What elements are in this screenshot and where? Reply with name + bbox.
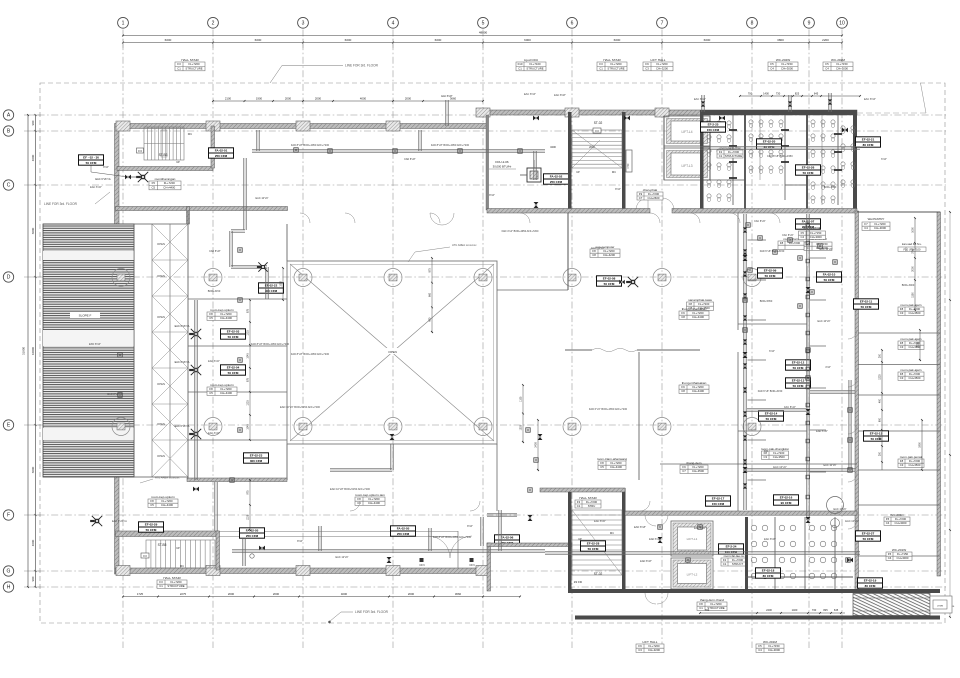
lift block L2 [671, 558, 713, 589]
svg-text:C4: C4 [888, 556, 892, 560]
cfm box FA-02-10 [817, 272, 842, 282]
svg-text:C1: C1 [577, 504, 581, 508]
toilet partition 1 [732, 115, 734, 205]
svg-text:825: 825 [795, 92, 800, 96]
svg-text:C3: C3 [900, 311, 904, 315]
right wing partition y431 [858, 430, 940, 432]
svg-text:2400: 2400 [535, 442, 538, 448]
grid bubble 4 [388, 17, 399, 28]
svg-text:C1: C1 [719, 154, 723, 158]
column grid 6 top wall upper [565, 108, 579, 117]
svg-text:LINE FOR 3rd. FLOOR: LINE FOR 3rd. FLOOR [355, 610, 389, 614]
svg-text:6000: 6000 [614, 38, 621, 42]
svg-text:EAC 10"x6": EAC 10"x6" [819, 248, 832, 251]
duct right horizontal y410 [747, 408, 806, 410]
duct stub above wall 1 [445, 100, 447, 126]
right wing partition y395 [858, 394, 940, 396]
svg-text:F3: F3 [177, 62, 181, 66]
grid line 10 [841, 30, 843, 649]
grid bubble 6 [567, 17, 578, 28]
escalator light band 1 [43, 251, 134, 260]
svg-text:Wat PANTRY: Wat PANTRY [868, 217, 885, 221]
svg-text:FAD 6"x6" BOD+4650 AFF+7200: FAD 6"x6" BOD+4650 AFF+7200 [589, 407, 628, 411]
right dim string 1900 [921, 420, 923, 470]
svg-text:STRUCTURE: STRUCTURE [725, 154, 742, 158]
lift L3 shaft [664, 148, 710, 180]
valve symbol 9 [806, 287, 811, 290]
wall below ST-B3 [117, 167, 213, 171]
svg-text:1045: 1045 [247, 353, 250, 359]
svg-text:3700: 3700 [912, 248, 915, 254]
grid line E [24, 424, 946, 426]
svg-text:ATU AREA xxxxxxxx: ATU AREA xxxxxxxx [452, 243, 477, 247]
bottom toilet fixtures [751, 525, 757, 531]
svg-text:EF-02-13: EF-02-13 [792, 379, 805, 383]
svg-text:1045: 1045 [247, 424, 250, 430]
svg-text:C3: C3 [900, 376, 904, 380]
bottom toilet left wall [745, 517, 748, 591]
svg-text:C: C [7, 183, 11, 189]
overall top dimension 48000 [123, 35, 842, 37]
svg-text:F3: F3 [143, 554, 147, 558]
svg-text:4000: 4000 [360, 97, 367, 101]
right wing partition y470 [858, 469, 940, 471]
svg-text:FAD 6"x6" BOD+3150: FAD 6"x6" BOD+3150 [758, 390, 783, 393]
column grid6-D circle [563, 269, 581, 287]
svg-text:4: 4 [392, 21, 395, 27]
column grid4-D circle [384, 269, 402, 287]
grid bubble 2 [208, 17, 219, 28]
svg-text:2000: 2000 [315, 97, 322, 101]
svg-text:CH+3000: CH+3000 [897, 556, 909, 560]
column grid7-D circle [653, 269, 671, 287]
svg-text:DN.: DN. [188, 132, 193, 136]
svg-text:EF-02-15: EF-02-15 [870, 432, 883, 436]
svg-text:EF-02-14: EF-02-14 [765, 412, 778, 416]
svg-text:CH+4400: CH+4400 [161, 503, 173, 507]
cfm box FA-02-05 [240, 528, 265, 538]
duct stub above wall 4 [828, 93, 830, 112]
corridor wall y211 right [672, 209, 857, 214]
svg-text:EAC 10"x6": EAC 10"x6" [817, 320, 830, 323]
svg-text:C3: C3 [638, 648, 642, 652]
column grid5-E circle [474, 418, 492, 436]
svg-text:CH+3500: CH+3500 [909, 311, 921, 315]
grid bubble B [3, 126, 13, 136]
svg-text:EF-02-12: EF-02-12 [792, 361, 805, 365]
grid line 9 [808, 30, 810, 649]
grid line 1 [122, 30, 124, 649]
bottom wall y591 [568, 589, 940, 593]
svg-text:EAC 12"x6": EAC 12"x6" [335, 556, 348, 559]
svg-text:C3: C3 [763, 455, 767, 459]
fan left room 1 [191, 329, 201, 339]
cfm box EF-02-09 [758, 268, 783, 278]
svg-text:LIFT-L3: LIFT-L3 [682, 164, 693, 168]
svg-text:1725: 1725 [137, 592, 144, 596]
cfm box EF-02-03 [221, 329, 246, 339]
svg-text:CH+3500: CH+3500 [909, 463, 921, 467]
svg-text:250 CFM: 250 CFM [246, 534, 259, 538]
duct drop bottom-left [242, 539, 244, 566]
svg-text:EF-02-23: EF-02-23 [250, 454, 263, 458]
svg-text:6000: 6000 [255, 38, 262, 42]
svg-text:C1: C1 [177, 67, 181, 71]
svg-text:HALL STAIR: HALL STAIR [603, 58, 621, 62]
duct riser upper-left [214, 482, 216, 531]
svg-text:F10: F10 [518, 62, 523, 66]
svg-text:2100: 2100 [225, 97, 232, 101]
corridor wall y513 bottom [625, 511, 857, 515]
cfm box EF-02-15 [864, 431, 889, 441]
wall x639 [638, 352, 640, 480]
svg-text:2400: 2400 [766, 608, 772, 612]
svg-text:50 CFM: 50 CFM [863, 537, 874, 541]
grid line D [24, 276, 946, 278]
svg-text:50 CFM: 50 CFM [588, 547, 599, 551]
svg-text:LIFT HALL: LIFT HALL [651, 58, 666, 62]
escalator truss bracing [133, 224, 135, 477]
grid bubble 5 [478, 17, 489, 28]
cfm box EF-02-08 [597, 276, 622, 286]
svg-text:50 CFM: 50 CFM [86, 161, 97, 165]
column grid 2 top wall [206, 121, 220, 131]
top wall right section [487, 110, 857, 115]
escalator slope label [70, 312, 100, 318]
mid-right partition y464 [660, 463, 857, 465]
svg-text:EF-2-24: EF-2-24 [726, 545, 737, 549]
svg-text:EAC 6"x6"=A: EAC 6"x6"=A [175, 361, 190, 364]
svg-text:CH+3200: CH+3200 [648, 648, 660, 652]
svg-text:825: 825 [823, 608, 828, 612]
svg-text:ST-B3: ST-B3 [159, 153, 168, 157]
svg-text:C4: C4 [770, 67, 774, 71]
column grid 5 top wall upper [476, 108, 490, 117]
svg-text:FAD 8"x8" BOD+3350: FAD 8"x8" BOD+3350 [767, 154, 793, 158]
svg-text:2200: 2200 [822, 38, 829, 42]
svg-text:6000: 6000 [165, 38, 172, 42]
top-right wall extension line [857, 112, 926, 114]
svg-text:EAD 10"x8" BOD+5150 AFF+7200: EAD 10"x8" BOD+5150 AFF+7200 [330, 487, 370, 491]
svg-text:975: 975 [247, 490, 250, 495]
svg-text:1225: 1225 [247, 400, 250, 406]
right wing partition y364.5 [858, 364, 940, 366]
cfm box EF-02-23 [244, 453, 269, 463]
cfm box FA-02-07 [796, 219, 821, 229]
svg-text:1225: 1225 [879, 374, 882, 380]
right wing top wall [857, 211, 940, 213]
stair ST-02 top room walls [568, 112, 572, 210]
lift L4 shaft [664, 116, 710, 146]
computer room wall x568 [567, 213, 569, 290]
right wing partition y556 [858, 555, 940, 557]
svg-text:50 CFM: 50 CFM [824, 278, 835, 282]
duct bottom run [232, 549, 545, 551]
svg-text:G: G [7, 569, 11, 575]
svg-text:FAD 6"x6" BOD+3150: FAD 6"x6" BOD+3150 [760, 250, 785, 253]
atrium OPEN label [384, 348, 401, 354]
duct right horizontal [745, 468, 855, 470]
svg-text:CH+4200: CH+4200 [603, 253, 615, 257]
svg-text:CH+3000: CH+3000 [768, 648, 780, 652]
svg-text:EAC 8"x6": EAC 8"x6" [764, 538, 776, 541]
svg-text:6"x6": 6"x6" [881, 158, 887, 161]
grid line G [24, 570, 946, 572]
mini dim string 5 [919, 330, 921, 360]
svg-text:OPEN: OPEN [157, 274, 165, 278]
svg-text:OPEN: OPEN [157, 382, 165, 386]
cfm box EF-02-27 [856, 531, 881, 541]
svg-text:50 CFM: 50 CFM [766, 417, 777, 421]
svg-text:F9: F9 [645, 62, 649, 66]
svg-text:6000: 6000 [524, 38, 531, 42]
svg-text:EF-02-08: EF-02-08 [603, 277, 616, 281]
svg-text:C7: C7 [639, 196, 643, 200]
right dim string mid [881, 350, 883, 470]
svg-text:2000: 2000 [273, 592, 280, 596]
fan at corridor left [258, 262, 267, 271]
svg-text:C3: C3 [900, 463, 904, 467]
duct top drops [256, 130, 258, 151]
valve symbol 7 [743, 352, 748, 355]
svg-text:50 CFM: 50 CFM [793, 366, 804, 370]
valve symbol 2 [390, 434, 395, 437]
svg-text:FL+7200: FL+7200 [789, 241, 801, 245]
valve symbol 19 [533, 116, 536, 121]
svg-text:EAC 6"x6"=A: EAC 6"x6"=A [112, 520, 127, 523]
svg-text:LINE FOR 3rd. FLOOR: LINE FOR 3rd. FLOOR [345, 64, 379, 68]
left rooms partition y392 [188, 391, 287, 393]
duct top run [252, 149, 545, 151]
valve symbol 16 [842, 128, 845, 133]
svg-text:CH+4400: CH+4400 [692, 315, 704, 319]
svg-text:FAD 8"x8" BOD+4950 AFF+7200: FAD 8"x8" BOD+4950 AFF+7200 [291, 352, 330, 356]
svg-text:STRUCTURE: STRUCTURE [185, 67, 202, 71]
svg-text:80 CFM: 80 CFM [865, 584, 876, 588]
svg-text:1105: 1105 [520, 396, 523, 402]
duct riser x482 [480, 517, 482, 546]
svg-text:F: F [7, 513, 10, 519]
valve symbol 10 [806, 409, 811, 412]
ramp bottom right [853, 594, 930, 616]
svg-text:FL+7200: FL+7200 [610, 62, 622, 66]
svg-text:300 CFM: 300 CFM [250, 459, 263, 463]
double door wall y591 [645, 593, 656, 604]
svg-text:FAD 8"x8" BOD+4950 AFF+7200: FAD 8"x8" BOD+4950 AFF+7200 [291, 143, 330, 147]
svg-text:OPEN: OPEN [157, 315, 165, 319]
svg-text:LIFT-L4: LIFT-L4 [682, 130, 693, 134]
duct left vertical [243, 158, 245, 230]
door arcs [300, 213, 310, 223]
svg-text:STRUCTURE: STRUCTURE [167, 584, 184, 588]
exhibition partition y350 [565, 349, 592, 351]
svg-text:FAD 4"x4" BOD+4950 AFF+7200: FAD 4"x4" BOD+4950 AFF+7200 [502, 230, 539, 233]
svg-text:C4: C4 [800, 235, 804, 239]
svg-text:EAD 6"x6": EAD 6"x6" [649, 538, 661, 541]
3rd floor outline dashed [40, 83, 945, 623]
fan bottom-left [92, 516, 102, 526]
svg-text:150 CFM: 150 CFM [707, 128, 720, 132]
atrium left dim [282, 268, 284, 300]
svg-text:645: 645 [834, 608, 839, 612]
stair ST-B5 treads [146, 540, 215, 568]
toilet block top wall [700, 110, 857, 115]
svg-text:2000: 2000 [285, 97, 292, 101]
svg-text:FA-02-10: FA-02-10 [823, 273, 836, 277]
svg-text:2000: 2000 [408, 592, 415, 596]
toilet stall stubs [729, 129, 737, 131]
svg-text:H: H [7, 585, 11, 591]
svg-text:FAD 8"x8": FAD 8"x8" [209, 250, 220, 253]
svg-text:FAD 8"x8" BOD+4950 AFF+7200: FAD 8"x8" BOD+4950 AFF+7200 [251, 342, 290, 346]
wall y480 left room [187, 478, 287, 482]
svg-text:OPEN: OPEN [388, 350, 397, 354]
svg-text:10: 10 [839, 21, 845, 27]
svg-text:5: 5 [482, 21, 485, 27]
svg-text:FAC 8"x6": FAC 8"x6" [754, 220, 765, 223]
corridor wall y533 bottom-left [116, 531, 219, 537]
svg-text:700: 700 [705, 608, 710, 612]
stair ST-02 top treads [572, 130, 622, 168]
bottom wall left section [116, 568, 488, 574]
svg-text:1900: 1900 [919, 442, 922, 448]
svg-text:EAC 8"x6": EAC 8"x6" [524, 92, 536, 96]
pipe fitting clusters [294, 148, 298, 152]
column grid 1 bottom wall [116, 566, 130, 576]
svg-text:CH+4400: CH+4400 [220, 316, 232, 320]
svg-text:C5: C5 [150, 503, 154, 507]
cfm box EF-02-20 [757, 139, 782, 149]
valve symbol 5 [528, 515, 533, 518]
fan EF-02-30 symbol [138, 172, 148, 182]
svg-text:150 CFM: 150 CFM [712, 502, 725, 506]
svg-text:C8: C8 [592, 253, 596, 257]
svg-text:kan-sad Kh.S.L.: kan-sad Kh.S.L. [902, 242, 922, 246]
svg-text:50 CFM: 50 CFM [861, 305, 872, 309]
grid line 7 [661, 30, 663, 649]
left wall upper [115, 124, 120, 225]
svg-text:CH+4400: CH+4400 [368, 501, 380, 505]
svg-text:2: 2 [212, 21, 215, 27]
svg-text:900: 900 [31, 576, 35, 581]
cfm box EF-02-28 [581, 541, 606, 551]
svg-text:200: 200 [879, 353, 882, 358]
cfm box EF-02-26 [796, 165, 821, 175]
svg-text:FAD 8"x8": FAD 8"x8" [404, 158, 415, 161]
svg-text:EAD 10"x6" BOD+5150 AFF+7200: EAD 10"x6" BOD+5150 AFF+7200 [280, 405, 320, 409]
atrium diagonal 1 [290, 264, 494, 441]
svg-text:250 CFM: 250 CFM [550, 180, 563, 184]
column grid3-D circle [294, 269, 312, 287]
fcu unit cluster [527, 168, 541, 182]
grid line 4 [392, 30, 394, 649]
svg-text:ti-jod CDU: ti-jod CDU [524, 58, 538, 62]
FHC box [626, 150, 632, 172]
grid bubble G [3, 566, 13, 576]
svg-text:FL+7150: FL+7150 [781, 62, 793, 66]
column grid4-E circle [384, 418, 402, 436]
svg-text:300 CFM: 300 CFM [265, 289, 278, 293]
duct right horizontal y392 [810, 390, 855, 392]
svg-text:EF - 02 - 30: EF - 02 - 30 [83, 156, 99, 160]
svg-text:EF-02-19: EF-02-19 [864, 579, 877, 583]
svg-text:CH+3000: CH+3000 [874, 226, 886, 230]
svg-text:FHC: FHC [627, 163, 630, 168]
svg-text:D: D [7, 275, 11, 281]
valve symbol 3 [534, 202, 539, 205]
duct stub above wall 3 [788, 95, 790, 112]
svg-text:EAC 6"x6": EAC 6"x6" [90, 186, 102, 189]
grid bubble 9 [804, 17, 815, 28]
svg-text:9: 9 [808, 21, 811, 27]
mid-right partition y431 [738, 430, 807, 432]
svg-text:80 CFM: 80 CFM [863, 143, 874, 147]
valve symbol 11 [806, 517, 811, 520]
valve symbol 13 [847, 558, 850, 563]
svg-text:EF-02-16: EF-02-16 [780, 496, 793, 500]
svg-text:31900: 31900 [22, 346, 26, 355]
svg-text:CH+4400: CH+4400 [692, 389, 704, 393]
grid bubble 8 [747, 17, 758, 28]
fan near EF-02-08 [628, 277, 638, 287]
stair ST-02 diag [572, 130, 622, 168]
cfm box EF-02-16 [774, 495, 799, 505]
mini dim string 1 [431, 258, 433, 332]
svg-text:F5: F5 [152, 181, 156, 185]
column grid 5 bottom wall [476, 566, 490, 576]
svg-text:CH+4400: CH+4400 [220, 391, 232, 395]
svg-text:90 CFM: 90 CFM [781, 501, 792, 505]
toilet block right wall [853, 110, 857, 211]
valve symbol 8 [743, 467, 748, 470]
svg-text:F8: F8 [780, 241, 784, 245]
exhibition double doors [592, 348, 603, 350]
atrium diagonal 2 [290, 264, 494, 441]
double door top mid [430, 213, 442, 225]
mid-right wall x738 [737, 213, 739, 330]
svg-text:80 CFM: 80 CFM [763, 574, 774, 578]
svg-text:CH+3000: CH+3000 [781, 67, 793, 71]
svg-text:EAC 10"x6": EAC 10"x6" [773, 465, 787, 469]
grid bubble 7 [657, 17, 668, 28]
svg-text:CH+2600: CH+2600 [648, 196, 660, 200]
svg-text:600: 600 [879, 417, 882, 422]
svg-text:EF-02-21: EF-02-21 [862, 138, 875, 142]
stair ST-B3 label F3 [137, 148, 144, 153]
svg-text:EAC 10"x6": EAC 10"x6" [833, 508, 846, 511]
svg-text:8"x6": 8"x6" [615, 188, 621, 191]
svg-text:BOD+3150: BOD+3150 [208, 290, 221, 293]
left rooms dim string [249, 300, 251, 440]
valve symbol 18 [624, 116, 627, 121]
svg-text:EAC 6"x6"=A: EAC 6"x6"=A [175, 425, 190, 428]
column grid6-E circle [563, 418, 581, 436]
bottom right dim cluster [700, 612, 845, 614]
svg-text:FA-02-06: FA-02-06 [501, 536, 514, 540]
svg-text:EAC 6"x6": EAC 6"x6" [208, 360, 220, 363]
svg-text:6: 6 [571, 21, 574, 27]
grid bubble 1 [118, 17, 129, 28]
column grid2-D circle [204, 269, 222, 287]
svg-text:EF-02-27: EF-02-27 [862, 532, 875, 536]
toilet partition 3 [784, 115, 786, 200]
grid line 3 [302, 30, 304, 649]
grid line 5 [482, 30, 484, 649]
svg-text:C3: C3 [900, 345, 904, 349]
svg-text:48000: 48000 [479, 31, 488, 35]
svg-text:C5: C5 [151, 186, 155, 190]
wall right of ST-B3 [211, 126, 215, 168]
